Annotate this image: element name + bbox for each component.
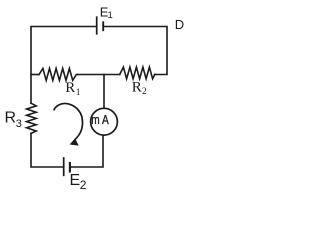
svg-text:m A: m A xyxy=(91,112,109,127)
svg-text:3: 3 xyxy=(16,118,22,130)
wire: middle branch left stub xyxy=(31,74,39,76)
resistor R2 xyxy=(120,67,155,79)
battery E2 long plate xyxy=(63,158,65,175)
wire: bottom-right segment + riser to ammeter xyxy=(71,136,103,168)
svg-text:R: R xyxy=(65,80,75,96)
svg-text:2: 2 xyxy=(142,87,147,97)
resistor R1 xyxy=(39,68,78,80)
wire: middle branch centre segment xyxy=(78,74,120,76)
svg-text:2: 2 xyxy=(80,178,87,192)
svg-text:1: 1 xyxy=(108,10,113,21)
battery E2 short plate xyxy=(69,163,71,172)
svg-text:R: R xyxy=(132,80,142,96)
current-direction arrow xyxy=(54,103,83,139)
wire: left lower + bottom-left segment xyxy=(31,133,63,167)
resistor R3 xyxy=(27,103,37,133)
wire: middle-branch right stub + right side + top-right xyxy=(104,27,167,75)
svg-text:1: 1 xyxy=(76,88,81,98)
svg-text:R: R xyxy=(5,110,17,127)
svg-text:E: E xyxy=(70,172,81,189)
wire: ammeter top to middle-branch junction xyxy=(103,75,105,108)
ammeter mA xyxy=(91,108,118,135)
battery E1 short plate xyxy=(102,22,104,30)
svg-text:D: D xyxy=(175,17,184,32)
battery E1 long plate xyxy=(96,17,98,34)
wire: top-left + left upper segment xyxy=(31,27,96,104)
